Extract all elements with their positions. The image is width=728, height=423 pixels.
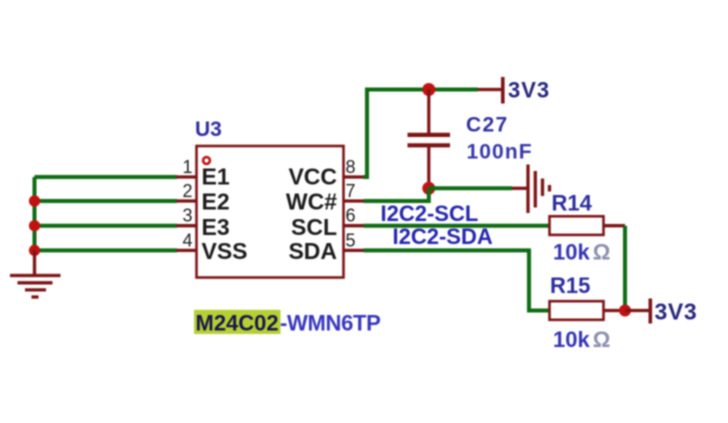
wire: vertical down to R15 junction	[623, 226, 627, 311]
wire: SDA pin5 down and to R15	[364, 250, 550, 310]
wire: C27 bottom lead	[427, 147, 430, 189]
wire: SCL pin6 to R14	[364, 224, 550, 228]
IC U3 component body rectangle	[197, 146, 344, 278]
svg-text:-WMN6TP: -WMN6TP	[280, 311, 381, 336]
svg-text:SDA: SDA	[288, 238, 337, 264]
wire: R15 right to junction	[604, 309, 626, 312]
svg-text:VCC: VCC	[288, 163, 337, 189]
node: junction on VSS	[29, 245, 40, 256]
svg-text:2: 2	[182, 181, 192, 201]
svg-text:M24C02: M24C02	[196, 311, 279, 336]
svg-text:100nF: 100nF	[467, 141, 533, 164]
wire: pin2 E2 horizontal	[35, 199, 178, 203]
svg-text:3: 3	[182, 206, 192, 226]
wire: WC# pin7 to junction jog	[364, 188, 429, 201]
svg-text:3V3: 3V3	[655, 299, 698, 325]
node: junction on E2	[29, 195, 40, 206]
resistor R15 body	[550, 301, 604, 320]
svg-text:VSS: VSS	[202, 238, 248, 264]
svg-text:E1: E1	[202, 163, 230, 189]
svg-text:8: 8	[346, 157, 356, 177]
svg-text:C27: C27	[466, 114, 508, 137]
svg-text:7: 7	[346, 181, 356, 201]
svg-text:E2: E2	[202, 188, 230, 214]
wire: pin4 VSS horizontal	[35, 248, 178, 252]
svg-text:6: 6	[346, 206, 356, 226]
power: 3V3 bar (right)	[648, 299, 652, 324]
wire: C27 top lead	[427, 90, 430, 134]
svg-text:1: 1	[182, 157, 192, 177]
svg-text:R15: R15	[550, 273, 590, 298]
wire: R14 right to corner	[604, 224, 626, 227]
svg-text:10kΩ: 10kΩ	[553, 327, 610, 352]
wire: junction to right ground	[429, 186, 512, 190]
part number highlight box	[194, 310, 281, 334]
power: 3V3 bar (top)	[501, 77, 505, 104]
wire: VCC pin8 up and over to 3V3	[364, 90, 479, 178]
svg-text:SCL: SCL	[291, 214, 337, 240]
pin stubs left (pins 1-4)	[177, 177, 197, 250]
svg-text:5: 5	[346, 230, 356, 250]
svg-text:WC#: WC#	[286, 188, 337, 214]
svg-text:U3: U3	[195, 118, 222, 141]
node: junction R14/R15/3V3	[619, 305, 631, 317]
capacitor C27 plates	[408, 133, 451, 137]
pin 1 indicator circle	[203, 157, 210, 164]
node: junction on E3	[29, 220, 40, 231]
wire: E1 net vertical bus on left	[33, 177, 37, 250]
wire: junction to 3V3 bar	[625, 309, 649, 312]
wire: pin3 E3 horizontal	[35, 224, 178, 228]
svg-text:10kΩ: 10kΩ	[553, 240, 610, 265]
svg-text:4: 4	[182, 230, 192, 250]
pin stubs right (pins 8-5)	[344, 177, 364, 250]
svg-text:I2C2-SDA: I2C2-SDA	[393, 224, 493, 249]
svg-text:I2C2-SCL: I2C2-SCL	[381, 201, 479, 226]
svg-text:E3: E3	[202, 214, 230, 240]
node: junction VCC/C27 top	[422, 83, 435, 96]
ground: earth symbol (rotated, right side)	[528, 165, 550, 214]
node: junction C27 bottom / WC# / gnd	[422, 182, 435, 195]
wire: maroon tail into 3V3 bar	[478, 88, 501, 91]
svg-text:R14: R14	[552, 191, 593, 216]
svg-text:3V3: 3V3	[508, 78, 550, 103]
resistor R14 body	[550, 216, 604, 235]
wire: pin1 E1 horizontal	[35, 175, 178, 179]
ground: earth symbol bottom-left	[10, 250, 61, 297]
